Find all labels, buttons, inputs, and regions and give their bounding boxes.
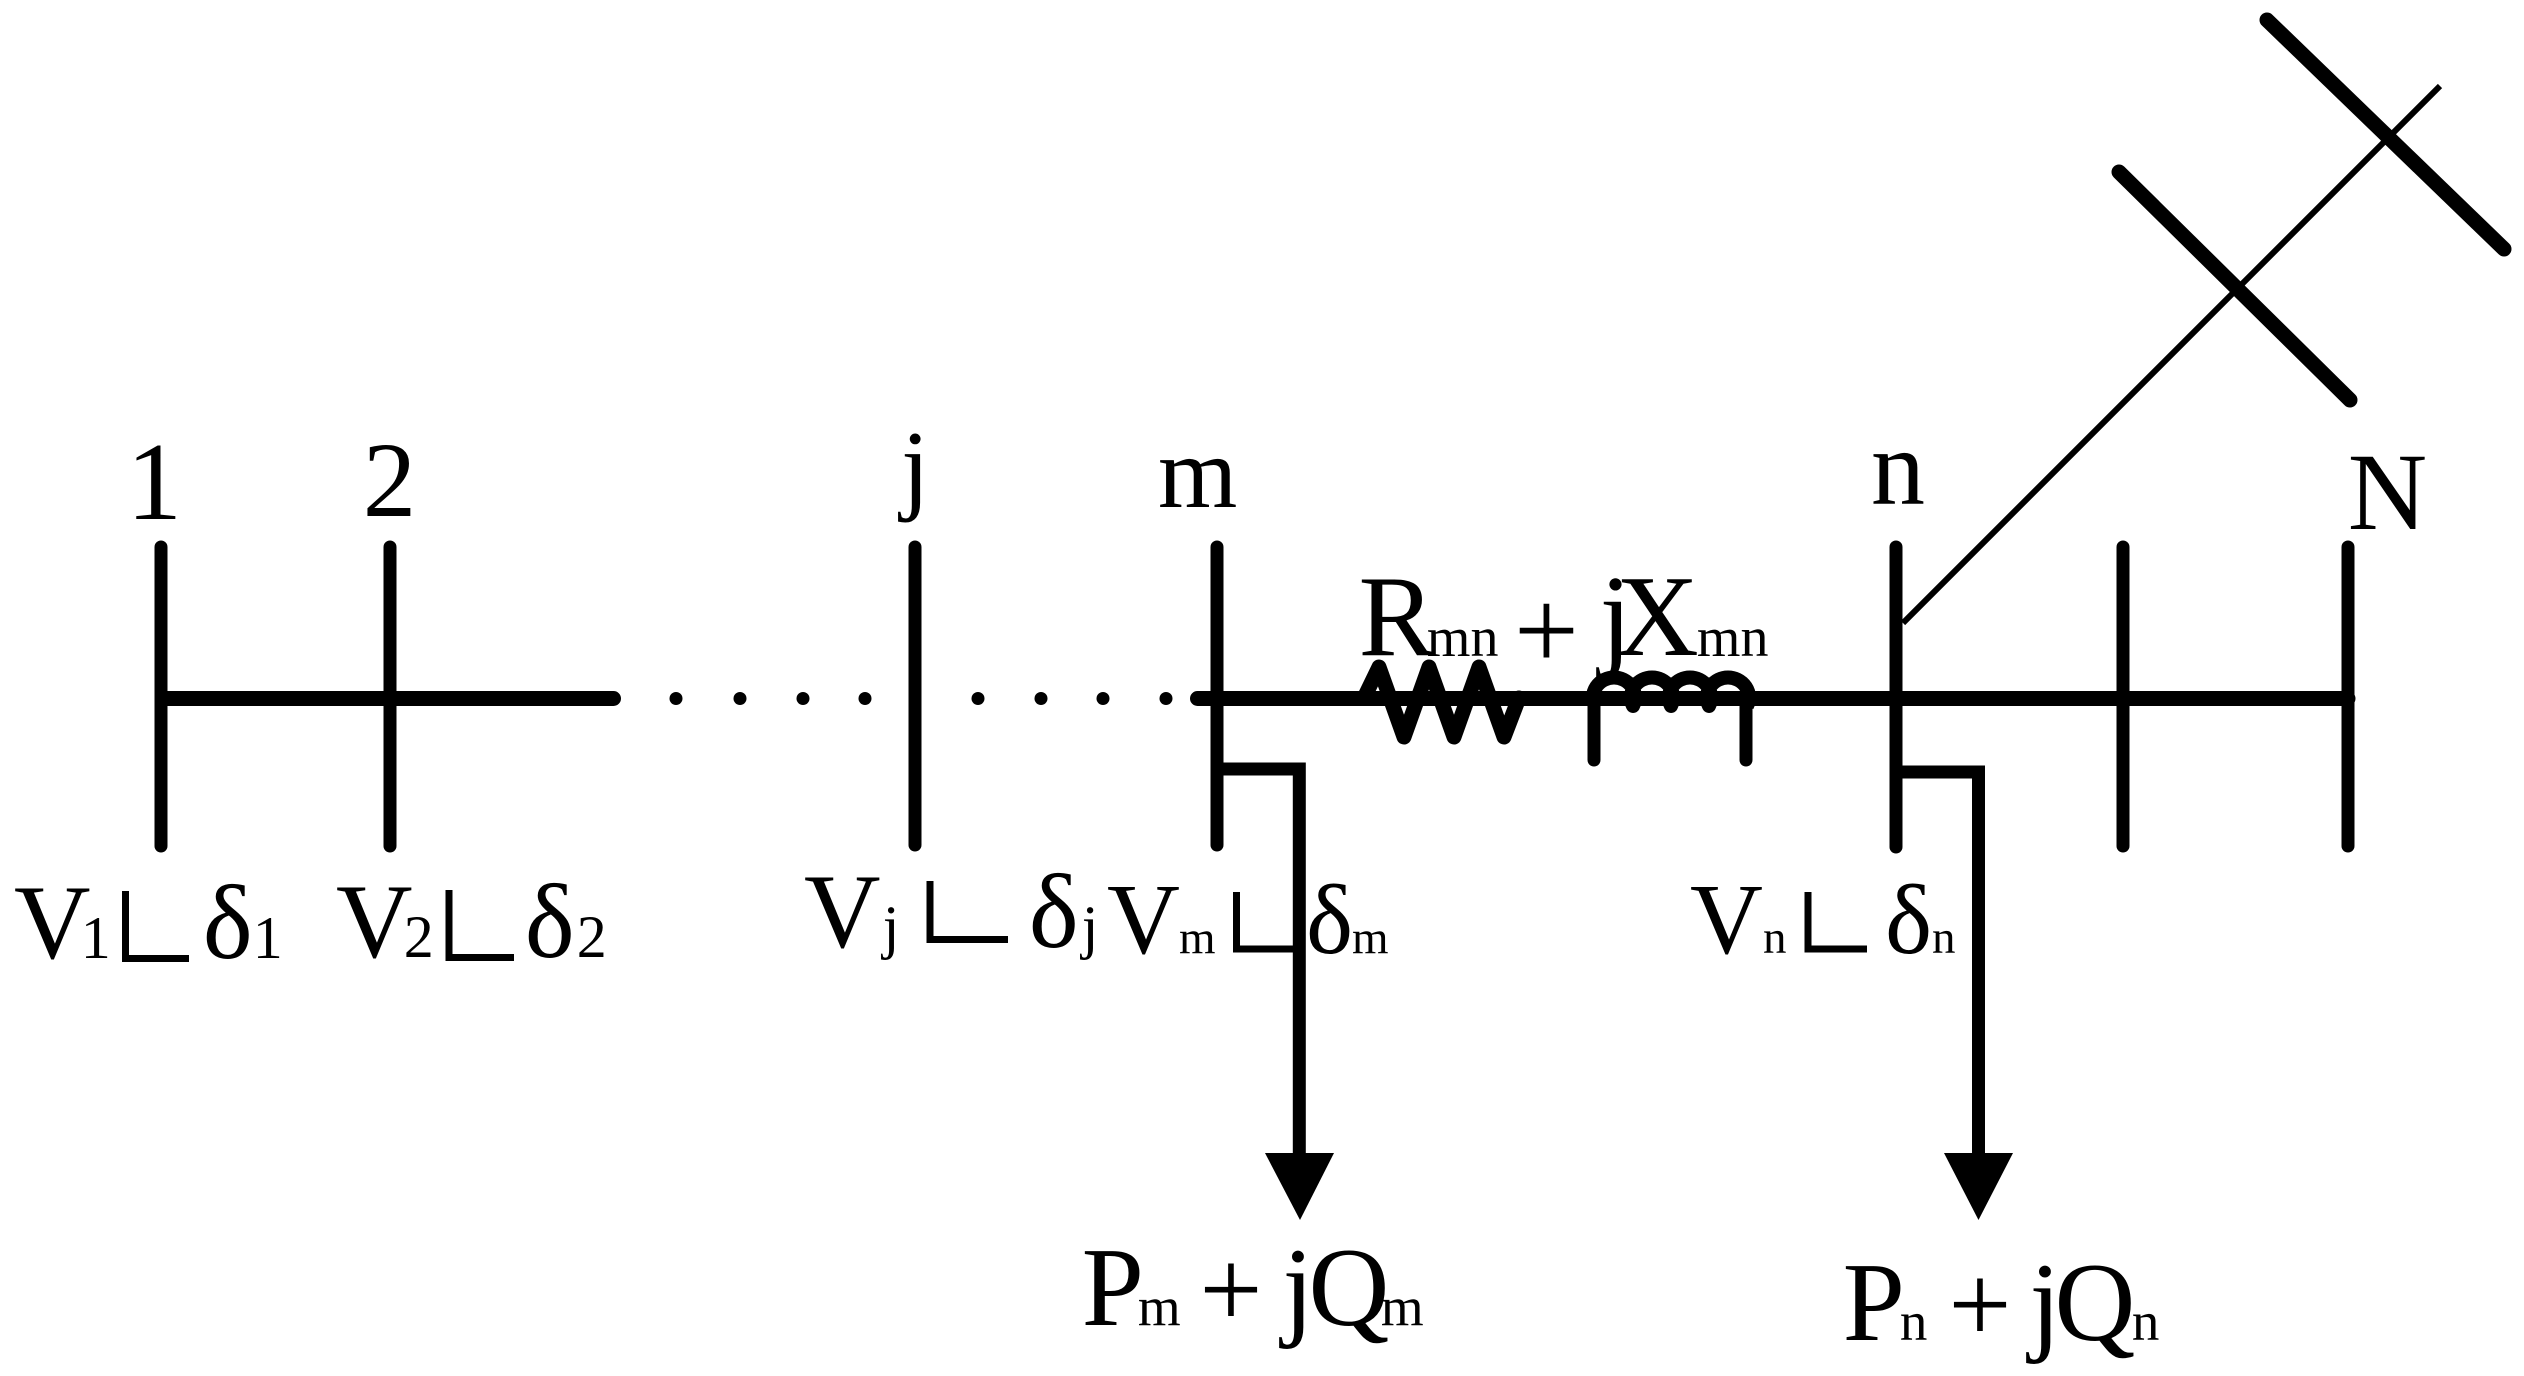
svg-text:δ: δ xyxy=(1885,864,1932,975)
svg-text:n: n xyxy=(1900,1291,1928,1352)
value label Rmn + jXmn xyxy=(1359,553,1769,694)
svg-text:2: 2 xyxy=(404,904,434,970)
wire dotted continuation between bus j and bus m xyxy=(972,692,1173,705)
bus (unlabeled, between n and N) xyxy=(2117,547,2130,846)
wire main feeder solid left segment (bus 1 to dots) xyxy=(162,691,614,706)
bus 2 xyxy=(384,547,397,846)
wire branch line from bus n (thin diagonal) xyxy=(1903,86,2440,623)
bus N xyxy=(2342,547,2355,846)
svg-text:m: m xyxy=(1352,912,1389,964)
svg-text:m: m xyxy=(1179,912,1216,964)
label V2 angle delta2 xyxy=(336,863,607,980)
svg-text:δ: δ xyxy=(203,864,253,981)
bus 1 xyxy=(155,547,168,846)
svg-text:m: m xyxy=(1158,417,1237,530)
wire main feeder solid right segment (bus m to bus N) xyxy=(1198,691,2349,706)
svg-text:+: + xyxy=(1514,567,1579,694)
svg-text:j: j xyxy=(881,894,900,960)
svg-text:m: m xyxy=(1138,1276,1181,1337)
bus m xyxy=(1211,547,1224,845)
svg-text:2: 2 xyxy=(363,422,417,540)
load arrow at bus n xyxy=(1944,1153,2013,1220)
svg-text:R: R xyxy=(1359,553,1436,680)
svg-text:1: 1 xyxy=(253,905,283,971)
svg-text:2: 2 xyxy=(577,904,607,970)
load arrow at bus m xyxy=(1265,1153,1334,1220)
svg-text:n: n xyxy=(1763,912,1787,964)
label V1 angle delta1 xyxy=(14,864,283,981)
inductor jXmn (coil on line m-n) xyxy=(1593,677,1749,760)
svg-text:m: m xyxy=(1381,1276,1424,1337)
svg-text:P: P xyxy=(1843,1241,1905,1365)
svg-text:δ: δ xyxy=(525,863,575,980)
wire load tap at bus m xyxy=(1217,769,1299,1153)
svg-text:n: n xyxy=(1871,409,1925,528)
svg-text:X: X xyxy=(1616,553,1699,680)
svg-text:N: N xyxy=(2348,431,2427,553)
svg-text:V: V xyxy=(1107,863,1180,975)
svg-text:n: n xyxy=(1932,912,1956,964)
svg-text:P: P xyxy=(1082,1226,1144,1350)
svg-text:mn: mn xyxy=(1427,607,1499,669)
crossing mark 2 on branch line xyxy=(2267,20,2504,249)
svg-text:+: + xyxy=(1948,1243,2011,1367)
svg-text:1: 1 xyxy=(81,905,111,971)
crossing mark 1 on branch line xyxy=(2119,172,2350,400)
svg-text:Q: Q xyxy=(2055,1241,2136,1365)
svg-text:V: V xyxy=(1690,863,1763,975)
wire dotted continuation between bus 2 and bus j xyxy=(670,692,872,705)
svg-text:Q: Q xyxy=(1309,1226,1390,1350)
svg-text:mn: mn xyxy=(1697,607,1769,669)
label Pm + jQm xyxy=(1082,1226,1424,1352)
svg-text:j: j xyxy=(898,411,929,524)
bus j xyxy=(909,547,922,845)
svg-text:δ: δ xyxy=(1029,853,1079,970)
svg-text:1: 1 xyxy=(127,421,183,544)
label Vm angle deltam xyxy=(1107,863,1389,975)
wire load tap at bus n xyxy=(1896,772,1979,1153)
resistor Rmn (zigzag on line m-n) xyxy=(1364,667,1519,737)
svg-text:V: V xyxy=(336,863,413,980)
svg-text:δ: δ xyxy=(1306,864,1353,975)
svg-text:V: V xyxy=(804,853,881,970)
svg-text:+: + xyxy=(1199,1228,1262,1352)
svg-text:n: n xyxy=(2132,1291,2160,1352)
label Vn angle deltan xyxy=(1690,863,1956,975)
bus n xyxy=(1890,547,1903,847)
label Pn + jQn xyxy=(1843,1241,2160,1367)
svg-text:V: V xyxy=(14,864,91,981)
svg-text:j: j xyxy=(1080,894,1099,960)
label Vj angle deltaj xyxy=(804,853,1098,970)
